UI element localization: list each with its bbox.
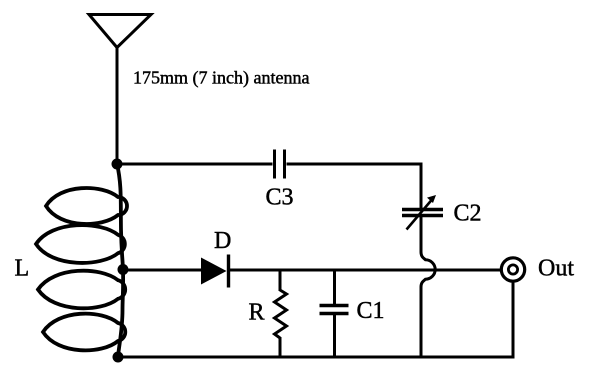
node C bottom coil dot: [113, 352, 124, 363]
wire diode to output: [229, 269, 502, 272]
antenna: [89, 15, 151, 48]
inductor L loop 1: [46, 188, 127, 224]
wire out connector down: [512, 282, 515, 358]
svg-text:D: D: [214, 228, 231, 254]
svg-text:Out: Out: [538, 256, 574, 282]
wire C2 down with hop over output wire: [421, 214, 435, 357]
inductor L loop 3: [38, 271, 125, 309]
wire antenna lead: [116, 47, 119, 164]
inductor L loop 2: [36, 225, 125, 263]
svg-text:L: L: [15, 255, 30, 281]
svg-text:C1: C1: [357, 298, 385, 324]
svg-text:175mm (7 inch) antenna: 175mm (7 inch) antenna: [133, 68, 309, 89]
diode D: [201, 255, 229, 288]
svg-text:R: R: [249, 299, 265, 325]
inductor L loop 4: [43, 314, 125, 351]
wire node A to C3: [117, 163, 273, 166]
node B coil tap dot: [118, 264, 129, 275]
wire corner down to C2: [420, 163, 423, 211]
wire bottom rail: [118, 356, 515, 359]
connector J1 Out: [501, 258, 524, 281]
capacitor C3: [275, 150, 285, 179]
resistor R: [275, 270, 287, 357]
wire C3 to corner: [287, 163, 423, 166]
inductor L right connector wire: [117, 164, 123, 357]
node A junction dot: [112, 159, 123, 170]
capacitor C2 variable: [402, 195, 443, 230]
svg-text:C3: C3: [266, 185, 294, 211]
svg-text:C2: C2: [454, 200, 482, 226]
capacitor C1: [320, 270, 349, 357]
wire node B to diode: [123, 269, 203, 272]
